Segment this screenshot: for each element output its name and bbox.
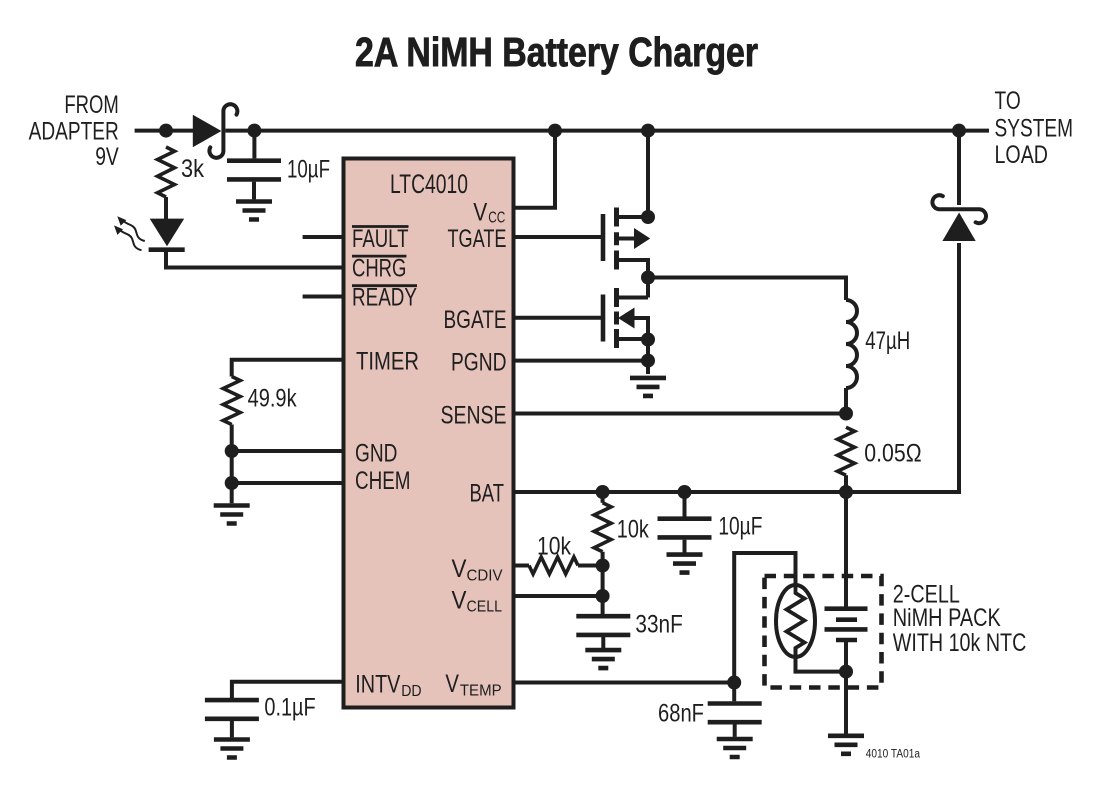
battery pack enclosure (dashed) [765, 576, 882, 688]
wire C2 to ground [230, 721, 234, 737]
svg-text:33nF: 33nF [635, 611, 682, 639]
svg-text:10k: 10k [537, 533, 571, 561]
wire adapter input to diode D1 [135, 129, 194, 133]
LED D2 indicator [149, 219, 185, 250]
svg-text:TO: TO [995, 87, 1021, 115]
node VTEMP junction [727, 676, 741, 690]
ground C4 [667, 555, 703, 573]
wire C4 to ground [683, 540, 687, 553]
ground battery [828, 736, 864, 754]
node adapter junction [159, 124, 173, 138]
capacitor C2 0.1µF [205, 694, 316, 722]
U1 label LTC4010 [390, 169, 468, 199]
svg-text:BAT: BAT [470, 480, 505, 508]
op-amp U1 LTC4010 body [344, 159, 514, 708]
svg-text:47µH: 47µH [865, 327, 910, 355]
wire VTEMP pin [514, 681, 735, 685]
wire R3 to BAT line [844, 475, 848, 492]
svg-text:2A NiMH Battery Charger: 2A NiMH Battery Charger [355, 29, 758, 75]
node VCC junction [548, 124, 562, 138]
node FROM ADAPTER 9V label [29, 91, 119, 171]
svg-text:TIMER: TIMER [356, 348, 419, 376]
wire top rail VIN [226, 129, 990, 133]
wire Q2 source to PGND [646, 340, 650, 375]
pin label BAT [470, 480, 505, 508]
node CHEM junction [225, 476, 239, 490]
note 4010 TA01a [866, 749, 921, 761]
pin label PGND [451, 349, 507, 377]
svg-text:0.1µF: 0.1µF [264, 694, 315, 722]
svg-text:TEMP: TEMP [460, 682, 502, 699]
wire TIMER pin to R2 [232, 360, 344, 377]
svg-text:V: V [473, 198, 487, 226]
svg-text:CHRG: CHRG [352, 254, 406, 282]
svg-text:CDIV: CDIV [467, 567, 503, 584]
capacitor C1 10µF [227, 156, 330, 184]
svg-text:49.9k: 49.9k [248, 385, 297, 413]
wire rail to D3 cathode [957, 131, 961, 205]
svg-text:10µF: 10µF [287, 156, 330, 184]
thermistor RT1 [776, 585, 815, 657]
ground C2 [214, 740, 250, 758]
resistor R1 3k [158, 147, 205, 197]
pin label TIMER [356, 348, 419, 376]
diode D1 Schottky from adapter [193, 104, 238, 158]
wire L1 to SENSE node [844, 388, 848, 414]
ground GND/CHEM [214, 506, 250, 524]
inductor L1 47µH [846, 300, 910, 388]
node VCDIV junction [596, 559, 610, 573]
wire R2 to ground [230, 425, 234, 504]
wire TGATE pin to Q1 gate [514, 235, 602, 239]
wire R1 to LED [164, 197, 168, 220]
wire BAT to C4 [683, 492, 687, 517]
wire R4 to VCDIV node [601, 552, 605, 566]
wire battery negative down [844, 642, 848, 734]
wire INTVDD pin to C2 [232, 682, 344, 698]
resistor R4 10k [594, 503, 649, 552]
battery pack label [893, 580, 1027, 657]
node Q1 drain rail junction [641, 124, 655, 138]
pin label FAULT [352, 225, 409, 253]
pin label READY [352, 284, 417, 312]
svg-text:V: V [452, 555, 467, 583]
svg-text:LTC4010: LTC4010 [390, 169, 468, 199]
svg-text:3k: 3k [181, 155, 204, 183]
svg-text:WITH 10k NTC: WITH 10k NTC [893, 629, 1027, 657]
node SENSE junction [839, 407, 853, 421]
ground C3 [585, 650, 621, 668]
capacitor C4 10µF [658, 513, 763, 541]
ground C5 [717, 739, 753, 757]
transistor Q2 NMOS [603, 278, 648, 349]
wire rail to Q1 drain [646, 131, 650, 217]
node switch node [641, 271, 655, 285]
wire VTEMP to C5 [732, 683, 736, 702]
svg-text:V: V [452, 586, 467, 614]
node Q2 source [641, 333, 655, 347]
node VCELL junction [596, 589, 610, 603]
svg-text:LOAD: LOAD [995, 141, 1049, 169]
svg-text:0.05Ω: 0.05Ω [864, 440, 921, 468]
battery BT1 2-cell NiMH [825, 609, 868, 640]
svg-text:FROM: FROM [64, 91, 118, 119]
pin label GND [355, 440, 397, 468]
node PGND junction [641, 354, 655, 368]
node C1 junction [247, 124, 261, 138]
wire C1 to ground [252, 182, 256, 200]
wire SENSE pin [514, 412, 847, 416]
resistor R2 49.9k [223, 377, 297, 425]
wire CHEM pin [232, 481, 344, 485]
svg-text:4010 TA01a: 4010 TA01a [866, 749, 921, 761]
LED D2 light arrows [114, 216, 145, 250]
svg-text:BGATE: BGATE [444, 306, 507, 334]
node BAT sense junction [839, 485, 853, 499]
svg-text:SYSTEM: SYSTEM [995, 115, 1074, 143]
transistor Q1 PMOS [603, 208, 650, 278]
node BAT C4 junction [678, 485, 692, 499]
svg-text:CELL: CELL [467, 599, 503, 616]
pin label BGATE [444, 306, 507, 334]
resistor R5 10k [529, 533, 578, 575]
svg-text:CHEM: CHEM [355, 467, 411, 495]
svg-text:68nF: 68nF [658, 700, 704, 728]
svg-text:INTV: INTV [355, 671, 400, 699]
resistor R3 0.05Ω [838, 427, 922, 475]
svg-text:FAULT: FAULT [352, 225, 409, 253]
capacitor C3 33nF [576, 611, 683, 639]
wire VCC pin to rail [514, 131, 556, 208]
wire BAT to R4 [601, 492, 605, 503]
wire C3 to ground [601, 637, 605, 648]
wire VCDIV to C3 [601, 566, 605, 615]
wire VCELL pin [514, 594, 603, 598]
wire BAT to battery positive [844, 492, 848, 607]
wire PGND pin [514, 359, 649, 363]
svg-text:10µF: 10µF [718, 513, 762, 541]
node battery negative junction [839, 665, 853, 679]
pin label SENSE [441, 402, 507, 430]
wire C5 to ground [733, 725, 737, 737]
capacitor C5 68nF [658, 700, 762, 728]
wire rail to C1 [252, 131, 256, 159]
pin label CHRG [352, 254, 406, 282]
svg-text:GND: GND [355, 440, 397, 468]
ground PGND [630, 378, 666, 396]
pin label VTEMP [445, 670, 501, 699]
wire switch node to L1 [648, 278, 846, 301]
wire BGATE pin to Q2 gate [514, 316, 602, 320]
ground C1 [236, 202, 272, 220]
svg-text:PGND: PGND [451, 349, 507, 377]
wire FAULT stub [303, 235, 344, 239]
wire R5 to VCDIV node [578, 564, 603, 568]
wire GND pin [232, 449, 344, 453]
pin label VCELL [452, 586, 503, 615]
node Q1 drain [641, 210, 655, 224]
svg-text:9V: 9V [95, 143, 119, 171]
svg-text:TGATE: TGATE [448, 225, 507, 253]
svg-text:V: V [445, 670, 459, 698]
pin label TGATE [448, 225, 507, 253]
wire VTEMP to thermistor [734, 553, 795, 683]
diode D3 Schottky to system load [932, 195, 986, 241]
svg-text:CC: CC [488, 209, 505, 226]
svg-text:10k: 10k [617, 516, 649, 544]
svg-text:ADAPTER: ADAPTER [29, 117, 119, 145]
pin label VCDIV [452, 555, 503, 584]
wire thermistor to battery negative [796, 647, 847, 672]
node GND junction [225, 444, 239, 458]
node TO SYSTEM LOAD label [995, 87, 1074, 169]
node system load junction [952, 124, 966, 138]
pin label CHEM [355, 467, 411, 495]
wire BAT pin to load diode [514, 243, 960, 492]
pin label INTVDD [355, 671, 421, 700]
title [355, 29, 758, 75]
wire LED cathode to CHRG pin [166, 250, 344, 268]
svg-text:SENSE: SENSE [441, 402, 507, 430]
svg-text:READY: READY [352, 284, 417, 312]
svg-text:DD: DD [401, 683, 421, 700]
pin label VCC [473, 198, 505, 226]
wire VCDIV stub [514, 564, 530, 568]
node BAT R4 junction [596, 485, 610, 499]
wire READY stub [303, 295, 344, 299]
